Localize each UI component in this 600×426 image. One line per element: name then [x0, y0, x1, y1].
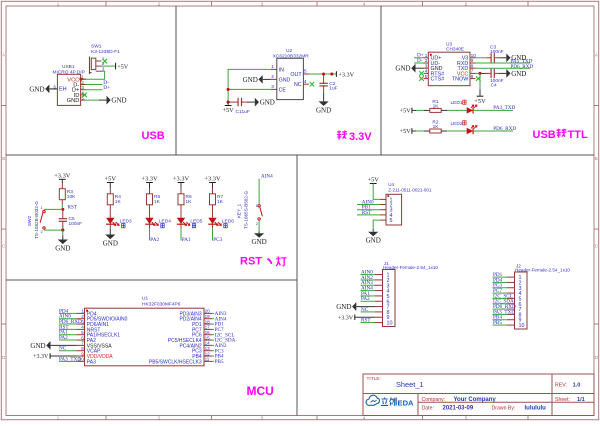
svg-text:13: 13: [205, 346, 211, 351]
svg-text:+5V: +5V: [474, 98, 486, 105]
svg-text:A: A: [595, 53, 598, 58]
section divider horizontal top: [6, 154, 594, 156]
svg-text:10: 10: [471, 53, 477, 59]
svg-text:LED2: LED2: [451, 121, 463, 127]
svg-text:RST: RST: [362, 210, 372, 216]
U2 pin OUT: [303, 73, 309, 75]
wire U1 pin 6 net PA2: [59, 339, 77, 341]
wire J2 pin 10 net PB5: [493, 324, 508, 326]
wire U1 pin 4 net RST: [59, 328, 77, 330]
ground flag at C4: [498, 72, 506, 74]
ground flag at U3 GND pin: [416, 67, 424, 69]
svg-text:100nF: 100nF: [69, 221, 83, 227]
ground flag at C2: [323, 93, 325, 101]
svg-text:1: 1: [256, 204, 258, 208]
wire U1 pin 3 net PD6_RXD: [59, 323, 77, 325]
power flag +3.3V at R6: [178, 182, 185, 184]
svg-text:6: 6: [471, 74, 474, 80]
svg-text:GND: GND: [316, 106, 331, 114]
wire SW1 pin3 to USB1 VCC: [82, 71, 105, 79]
wire +5V rail to U2 IN: [228, 69, 271, 102]
power flag +3.3V at R7: [209, 182, 216, 184]
section divider horizontal RST/MCU: [6, 279, 297, 281]
wire +5V to U4 pin1: [373, 184, 380, 200]
header U4 body: [386, 194, 402, 225]
svg-text:lulululu: lulululu: [525, 406, 547, 412]
svg-text:6: 6: [81, 335, 84, 340]
ground flag below KEY_1: [258, 231, 260, 233]
wire U3 V3 to C3: [476, 57, 487, 59]
svg-text:1uF: 1uF: [329, 86, 337, 92]
svg-text:9: 9: [471, 58, 474, 64]
wire +5V to R1: [416, 109, 424, 111]
no-connect X on U2 NC: [310, 82, 315, 87]
svg-text:KEY_1: KEY_1: [237, 203, 242, 218]
wire J2 pin 5 net I2C_SCL: [493, 297, 508, 299]
ground flag at C1: [247, 101, 255, 103]
ground flag at USB1 shield: [49, 88, 57, 90]
wire J1 pin 10 net RST: [361, 322, 376, 324]
wire D+ net: [86, 89, 103, 91]
wire U1 pin 8 net NC: [59, 350, 77, 352]
svg-text:+5V: +5V: [367, 177, 379, 184]
no-connect X on U3 TNOW: [476, 76, 481, 81]
svg-text:USB1: USB1: [62, 64, 75, 70]
svg-text:PA3_TXD: PA3_TXD: [59, 356, 81, 362]
wire KEY_1 to GND: [258, 220, 260, 231]
svg-text:EH: EH: [59, 86, 67, 92]
svg-text:2: 2: [256, 222, 258, 226]
junction at USB1 VCC pin: [79, 78, 82, 81]
svg-text:SW2: SW2: [27, 215, 33, 226]
power flag +3.3V at R5: [146, 182, 153, 184]
wire J2 pin 3 net PC3: [493, 287, 508, 289]
svg-text:1K: 1K: [154, 199, 161, 205]
svg-text:USB: USB: [533, 129, 556, 141]
wire U4 pin5 to GND: [373, 220, 380, 229]
svg-text:20: 20: [205, 309, 211, 314]
junction at C2: [322, 72, 325, 75]
svg-text:GND: GND: [395, 65, 410, 73]
wire U1 pin 2 net AIN0: [59, 318, 77, 320]
wire R1 to LED1: [447, 109, 467, 111]
frame column ticks bottom: [105, 416, 107, 420]
svg-text:4: 4: [304, 79, 307, 85]
wire U4 pin4 RST: [357, 214, 380, 216]
svg-text:16: 16: [205, 330, 211, 335]
section divider vertical USB/3.3V: [175, 6, 177, 155]
svg-text:B: B: [595, 156, 598, 161]
svg-text:U1: U1: [142, 296, 148, 302]
header J1 body: [383, 270, 396, 327]
svg-text:1: 1: [81, 309, 84, 314]
svg-text:+5V: +5V: [105, 176, 117, 183]
svg-text:+5V: +5V: [400, 108, 412, 115]
LED LED6: [212, 214, 214, 218]
svg-text:TS-1065S-B502-G: TS-1065S-B502-G: [244, 191, 249, 229]
svg-text:8: 8: [81, 346, 84, 351]
svg-text:GND: GND: [243, 76, 258, 84]
svg-text:GND: GND: [30, 342, 45, 350]
section divider vertical 3.3V/USBTTL: [380, 6, 382, 155]
U4 pin-1 dot: [387, 195, 389, 197]
U2 pin CE: [271, 88, 277, 90]
svg-text:NC: NC: [59, 346, 67, 352]
wire LED2 to net: [473, 130, 513, 132]
U1 pin-1 dot: [86, 310, 88, 312]
svg-text:NC: NC: [361, 307, 369, 313]
junction at +3.3V flag: [330, 72, 333, 75]
wire D- to UD-: [414, 62, 424, 64]
header J2 body: [515, 272, 528, 329]
svg-text:OUT: OUT: [290, 72, 302, 78]
svg-text:D+: D+: [103, 85, 110, 91]
resistor R5: [149, 189, 151, 194]
U1 right pin stubs and numbers: [204, 312, 212, 314]
wire to GND: [62, 230, 64, 235]
svg-text:17: 17: [205, 325, 211, 330]
svg-text:PA2: PA2: [361, 296, 370, 302]
svg-text:GND: GND: [29, 85, 44, 93]
svg-text:GND: GND: [103, 240, 118, 248]
svg-text:GND: GND: [260, 99, 275, 107]
U2 pin GND: [271, 78, 277, 80]
wire RST to SW2: [44, 208, 63, 210]
power flag +3.3V at U1 VDD: [50, 355, 76, 357]
wire U3 VCC to C4: [476, 72, 481, 74]
svg-text:11: 11: [205, 357, 210, 362]
wire D+ to UD+: [414, 57, 424, 59]
svg-text:LED1: LED1: [451, 100, 463, 106]
svg-text:+3.3V: +3.3V: [338, 71, 354, 78]
wire U1 pin 10 net PA3_TXD: [59, 360, 77, 362]
svg-text:GND: GND: [252, 238, 267, 246]
svg-text:HK32F030MF4P6: HK32F030MF4P6: [142, 301, 181, 307]
svg-text:CTS#: CTS#: [431, 77, 445, 83]
wire R5 to LED4: [149, 210, 151, 214]
svg-text:PB5: PB5: [493, 320, 502, 326]
USB1 pin numbers: [81, 78, 86, 80]
svg-text:1/1: 1/1: [577, 397, 585, 403]
junction at U3 VCC: [478, 72, 481, 75]
LED LED3: [109, 214, 111, 218]
svg-text:2: 2: [41, 230, 43, 234]
svg-text:1.0: 1.0: [573, 382, 581, 388]
svg-text:1K: 1K: [115, 199, 122, 205]
switch SW2: [43, 210, 45, 212]
header J1 pins: [375, 274, 383, 276]
svg-text:10K: 10K: [67, 194, 76, 200]
svg-text:B: B: [2, 156, 5, 161]
no-connect X on U3 RTS#: [419, 71, 424, 76]
U1 left pin stubs and numbers: [77, 312, 85, 314]
wire C5 to bottom junction: [62, 226, 64, 230]
logo EasyEDA: [366, 395, 379, 405]
svg-text:D-: D-: [417, 58, 423, 64]
svg-text:Sheet:: Sheet:: [555, 397, 570, 403]
ground flag below C5: [62, 236, 64, 240]
wire R7 to LED6: [212, 210, 214, 214]
wire SW1 pin2 to +5V: [102, 65, 116, 67]
power flag +5V: [227, 102, 229, 105]
wire R4 to LED3: [109, 210, 111, 214]
svg-text:A: A: [2, 53, 5, 58]
wire U2 OUT to +3.3V: [309, 73, 337, 75]
svg-text:18: 18: [205, 319, 211, 324]
svg-text:RST: RST: [68, 205, 78, 211]
chip U1 body: [85, 308, 205, 366]
svg-text:PA1: PA1: [182, 237, 191, 243]
junction bottom of C5: [61, 229, 64, 232]
svg-text:TTL: TTL: [568, 129, 588, 141]
resistor R4: [109, 189, 111, 194]
U4 pins: [380, 198, 386, 200]
LED LED1: [467, 107, 473, 113]
resistor R3: [61, 184, 63, 189]
wire U1 pin 5 net PA1: [59, 334, 77, 336]
wire J1 pin 3 net AIN3: [361, 284, 376, 286]
svg-text:5: 5: [390, 218, 393, 224]
svg-text:GND: GND: [511, 70, 526, 78]
U1 right wires and net labels: [212, 312, 214, 314]
svg-text:3: 3: [271, 84, 274, 90]
frame row ticks left: [1, 105, 6, 107]
wire J1 pin 5 net PA1: [361, 295, 376, 297]
svg-text:1K: 1K: [217, 199, 224, 205]
capacitor C1: [228, 101, 238, 103]
svg-text:Company:: Company:: [422, 397, 446, 403]
U3 right pin stubs: [470, 57, 476, 59]
svg-text:1K: 1K: [433, 124, 440, 130]
power flag +3.3V at R3: [59, 178, 66, 180]
svg-text:REV:: REV:: [555, 382, 567, 388]
wire J2 pin 7 net PD6_RXD: [493, 308, 508, 310]
wire J1 pin 4 net AIN4: [361, 290, 376, 292]
svg-text:9: 9: [81, 351, 84, 356]
ground flag at J1 pin 7: [356, 306, 375, 308]
frame row ticks right: [594, 105, 599, 107]
wire R2 to LED2: [447, 130, 467, 132]
svg-text:SW1: SW1: [91, 44, 102, 50]
svg-text:1K: 1K: [433, 103, 440, 109]
svg-text:GND: GND: [366, 237, 381, 245]
svg-text:5: 5: [304, 69, 307, 75]
svg-text:+3.3V: +3.3V: [141, 176, 158, 183]
svg-text:3.3V: 3.3V: [349, 131, 372, 143]
svg-text:8: 8: [471, 63, 474, 69]
wire SW2 bottom: [44, 229, 63, 231]
svg-text:+3.3V: +3.3V: [173, 176, 190, 183]
svg-text:PA2: PA2: [150, 237, 159, 243]
wire U3 TXD net: [476, 67, 531, 69]
wire J2 pin 4 net PC7: [493, 292, 508, 294]
resistor R7: [212, 189, 214, 194]
wire J1 pin 8 net NC: [361, 311, 376, 313]
svg-text:100nF: 100nF: [490, 49, 504, 55]
svg-text:PB5/SWCLK/HSECLK3: PB5/SWCLK/HSECLK3: [149, 359, 202, 365]
svg-text:EDA: EDA: [398, 399, 415, 408]
LED LED2: [467, 128, 473, 134]
svg-text:USB: USB: [142, 130, 165, 142]
ground flag at U1 VSS: [51, 344, 77, 346]
svg-text:PA3_TXD: PA3_TXD: [493, 105, 515, 111]
wire J2 pin 8 net PA3_TXD: [493, 313, 508, 315]
regulator U2 body: [277, 58, 304, 99]
power flag +3.3V at J1 pin 9: [355, 316, 375, 318]
wire J1 pin 6 net PA2: [361, 300, 376, 302]
section label 3.3V: [337, 131, 347, 140]
svg-text:TITLE:: TITLE:: [367, 376, 381, 382]
svg-text:1K: 1K: [186, 199, 193, 205]
svg-text:PC3: PC3: [213, 237, 222, 243]
capacitor C2: [323, 74, 325, 83]
header J2 pins: [507, 276, 515, 278]
svg-text:PB5: PB5: [215, 359, 224, 365]
ground flag below LED3: [109, 228, 111, 230]
wire U3 RXD net: [476, 62, 531, 64]
wire U2 CE: [228, 88, 271, 90]
wire U4 pin2 AIN0: [357, 204, 380, 206]
wire LED4 to net: [149, 228, 151, 240]
svg-text:+5V: +5V: [400, 128, 412, 135]
svg-text:2021-03-09: 2021-03-09: [443, 406, 474, 412]
power flag +5V at R4: [107, 182, 114, 184]
junction at CE rail: [227, 88, 230, 91]
svg-text:C4: C4: [491, 82, 497, 88]
svg-text:PA2: PA2: [59, 335, 68, 341]
svg-text:+3.3V: +3.3V: [338, 315, 354, 321]
wire J1 pin 1 net AIN0: [361, 274, 376, 276]
svg-text:AIN4: AIN4: [261, 174, 273, 180]
wire U1 pin 1 net PD4: [59, 312, 77, 314]
wire R6 to LED5: [180, 210, 182, 214]
svg-text:1: 1: [271, 64, 274, 70]
svg-text:Your Company: Your Company: [454, 397, 497, 403]
svg-text:1: 1: [41, 206, 43, 210]
svg-text:7: 7: [81, 341, 84, 346]
ground flag at U2 GND: [263, 78, 271, 80]
no-connect X on U3 CTS#: [419, 76, 424, 81]
resistor R6: [180, 189, 182, 194]
svg-text:5: 5: [81, 330, 84, 335]
chip U3 body: [428, 52, 470, 85]
wire J2 pin 1 net PD1: [493, 276, 508, 278]
svg-text:7: 7: [471, 69, 474, 75]
svg-text:2: 2: [271, 74, 274, 80]
wire J2 pin 9 net PB4: [493, 319, 508, 321]
wire VCC rail down to +5V: [479, 73, 481, 89]
switch SW1: [89, 57, 91, 75]
svg-text:MCU: MCU: [247, 384, 274, 398]
svg-text:12: 12: [205, 351, 211, 356]
frame column ticks top: [105, 1, 107, 6]
svg-text:U3: U3: [446, 41, 452, 47]
svg-text:19: 19: [205, 314, 211, 319]
svg-text:U2: U2: [286, 48, 292, 54]
svg-text:NC: NC: [294, 82, 302, 88]
svg-text:CE: CE: [279, 87, 287, 93]
svg-text:1uF: 1uF: [242, 109, 250, 115]
wire J2 pin 6 net I2C_SDA: [493, 303, 508, 305]
power flag +5V under U3: [479, 89, 481, 96]
power flag +3.3V: [335, 71, 337, 77]
svg-text:RST: RST: [361, 317, 371, 323]
no-connect X on USB1 ID: [82, 93, 87, 98]
svg-text:CH340E: CH340E: [446, 47, 464, 53]
svg-text:GND: GND: [279, 77, 291, 83]
ground flag below U4: [372, 229, 374, 232]
power flag +5V at SW1: [115, 63, 117, 70]
U3 left pin stubs: [424, 57, 429, 59]
svg-text:+3.3V: +3.3V: [54, 173, 71, 180]
wire J1 pin 2 net AIN2: [361, 279, 376, 281]
key switch KEY_1: [258, 205, 260, 207]
U3 pin-1 dot: [430, 54, 432, 56]
svg-text:+3.3V: +3.3V: [33, 354, 49, 360]
resistor R2: [424, 130, 430, 132]
svg-text:+5V: +5V: [222, 107, 234, 114]
svg-text:GND: GND: [336, 303, 351, 311]
svg-text:15: 15: [205, 335, 211, 340]
capacitor C4: [487, 72, 492, 74]
svg-text:10: 10: [387, 321, 393, 327]
svg-text:K3-1235D-F1: K3-1235D-F1: [91, 49, 120, 55]
wire LED6 to net: [212, 228, 214, 240]
wire LED1 to net: [473, 109, 513, 111]
svg-text:IN: IN: [279, 67, 284, 73]
wire LED5 to net: [180, 228, 182, 240]
wire AIN4 to KEY_1: [258, 179, 260, 205]
junction at C1 rail: [227, 101, 230, 104]
U2 pin IN: [271, 68, 277, 70]
no-connect X on SW1 pin 1: [103, 59, 108, 64]
svg-text:TNOW: TNOW: [452, 77, 469, 83]
resistor R1: [424, 109, 430, 111]
ground flag at USB1 GND: [99, 99, 107, 101]
svg-text:GND: GND: [111, 97, 126, 105]
wire U4 pin3 PB1: [357, 209, 380, 211]
svg-text:Date:: Date:: [422, 405, 434, 411]
junction RST: [61, 208, 64, 211]
title block frame: [363, 374, 594, 416]
wire USB1 GND: [86, 99, 99, 101]
wire R3 to RST junction: [61, 205, 63, 210]
connector USB1 body: [57, 74, 80, 105]
wire D- net: [86, 84, 103, 86]
svg-text:Sheet_1: Sheet_1: [396, 380, 424, 389]
LED LED4: [149, 214, 151, 218]
capacitor C5: [62, 209, 64, 218]
svg-text:GND: GND: [67, 98, 80, 104]
U2 pin NC: [303, 83, 309, 85]
wire J2 pin 2 net PD4: [493, 281, 508, 283]
svg-text:PD6_RXD: PD6_RXD: [493, 126, 516, 132]
wire +5V to R2: [416, 130, 424, 132]
svg-text:+3.3V: +3.3V: [204, 176, 221, 183]
svg-text:10: 10: [519, 323, 525, 329]
svg-text:4: 4: [81, 325, 84, 330]
power flag +5V at U4: [370, 183, 377, 185]
svg-text:14: 14: [205, 341, 211, 346]
LED LED5: [180, 214, 182, 218]
svg-text:Z-211-0511-0021-001: Z-211-0511-0021-001: [388, 187, 432, 192]
svg-text:RST: RST: [240, 256, 262, 268]
svg-text:TS-1082B-B032-G: TS-1082B-B032-G: [34, 201, 39, 239]
section divider vertical MCU/right: [296, 155, 298, 416]
svg-text:Drawn By:: Drawn By:: [492, 405, 516, 411]
ground flag at C3: [498, 57, 506, 59]
svg-text:+5V: +5V: [117, 63, 129, 70]
